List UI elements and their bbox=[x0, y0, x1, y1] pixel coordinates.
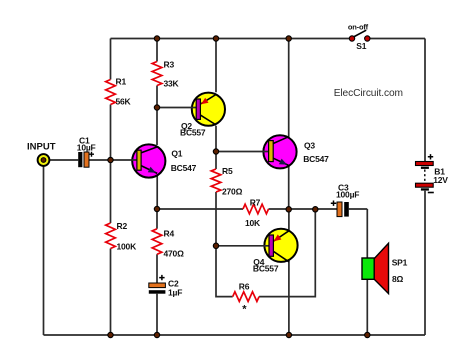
svg-text:56K: 56K bbox=[116, 97, 132, 107]
svg-text:Q3: Q3 bbox=[304, 141, 315, 151]
svg-text:S1: S1 bbox=[356, 41, 366, 51]
svg-text:R2: R2 bbox=[117, 221, 128, 231]
svg-text:on-off: on-off bbox=[348, 23, 369, 32]
svg-text:8Ω: 8Ω bbox=[392, 274, 404, 284]
svg-text:BC547: BC547 bbox=[303, 154, 329, 164]
svg-text:100µF: 100µF bbox=[336, 190, 359, 200]
svg-text:SP1: SP1 bbox=[392, 258, 408, 268]
svg-text:R1: R1 bbox=[116, 77, 127, 87]
svg-text:R6: R6 bbox=[239, 282, 250, 292]
svg-text:12V: 12V bbox=[433, 175, 448, 185]
svg-text:270Ω: 270Ω bbox=[222, 187, 243, 197]
svg-text:*: * bbox=[242, 304, 247, 316]
svg-text:R7: R7 bbox=[250, 198, 261, 208]
svg-text:BC557: BC557 bbox=[253, 264, 279, 274]
svg-text:R3: R3 bbox=[164, 60, 175, 70]
svg-text:BC557: BC557 bbox=[180, 128, 206, 138]
svg-text:INPUT: INPUT bbox=[27, 142, 56, 153]
svg-text:Q1: Q1 bbox=[171, 149, 182, 159]
svg-text:BC547: BC547 bbox=[171, 163, 197, 173]
svg-text:33K: 33K bbox=[164, 79, 180, 89]
svg-text:10K: 10K bbox=[245, 218, 261, 228]
svg-text:1µF: 1µF bbox=[168, 288, 182, 298]
svg-text:10µF: 10µF bbox=[77, 143, 96, 153]
svg-text:R4: R4 bbox=[164, 229, 175, 239]
svg-text:100K: 100K bbox=[117, 242, 138, 252]
svg-text:R5: R5 bbox=[222, 166, 233, 176]
svg-text:470Ω: 470Ω bbox=[164, 249, 185, 259]
svg-text:ElecCircuit.com: ElecCircuit.com bbox=[334, 88, 403, 99]
